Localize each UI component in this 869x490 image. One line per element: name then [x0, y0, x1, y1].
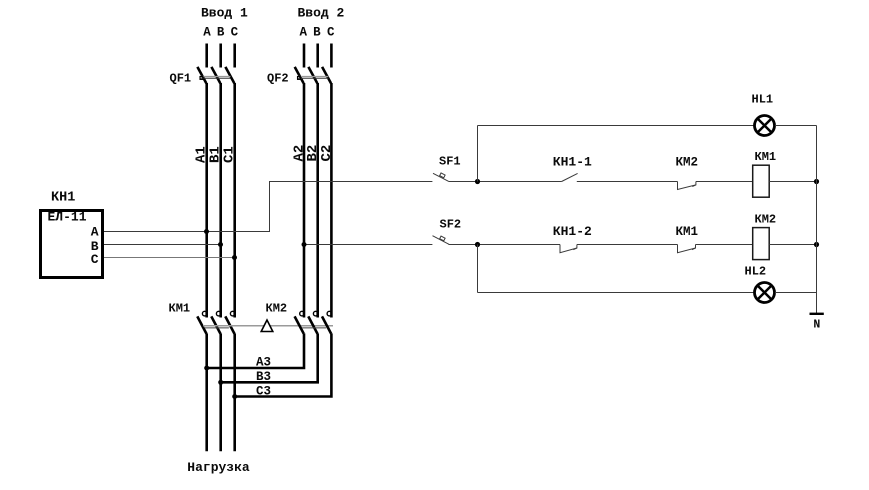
- wire phase C1: [233, 83, 236, 318]
- wire row1 mid: [577, 181, 678, 183]
- wire riser to HL1 row: [477, 126, 479, 182]
- wire KH1 pin A to bus A1 and riser: [104, 182, 270, 232]
- junction dot B3: [218, 380, 223, 385]
- svg-text:С2: С2: [319, 145, 335, 162]
- coil KM2: [753, 213, 776, 260]
- wire phase A2: [303, 83, 306, 318]
- junction dot A3: [204, 366, 209, 371]
- neutral bus: [816, 126, 818, 314]
- wire input2 top stubs: [304, 44, 331, 68]
- phase labels A B C input 2: [299, 26, 335, 40]
- pushbutton SF1: [433, 155, 461, 182]
- voltage relay KH1 (EL-11): [41, 191, 103, 278]
- contact KM2 (NC): [676, 156, 699, 190]
- junction dot B1: [218, 242, 223, 247]
- svg-text:КМ2: КМ2: [266, 302, 288, 316]
- wire SF1 to junction: [449, 181, 562, 183]
- svg-text:В: В: [217, 26, 225, 40]
- svg-text:HL1: HL1: [752, 93, 774, 107]
- wire SF2 to junction: [449, 244, 561, 246]
- junction dot row1: [475, 179, 480, 184]
- pushbutton SF2: [433, 218, 462, 245]
- svg-text:Нагрузка: Нагрузка: [187, 460, 250, 475]
- wire KH1 pin C: [104, 257, 236, 259]
- wire coil KM1 to bus: [769, 181, 816, 183]
- wire KM2 output C3: [236, 333, 331, 396]
- junction dot C3: [232, 394, 237, 399]
- wire phase A1: [205, 83, 208, 318]
- svg-text:А: А: [203, 26, 211, 40]
- svg-text:КМ1: КМ1: [755, 150, 777, 164]
- circuit breaker QF1: [170, 67, 235, 86]
- svg-text:КМ1: КМ1: [676, 225, 699, 239]
- svg-text:ЕЛ-11: ЕЛ-11: [48, 210, 87, 225]
- contactor KM1 main contacts: [169, 302, 236, 334]
- wire HL2 row right: [775, 292, 817, 294]
- wire HL2 row left: [478, 292, 755, 294]
- wire SF2 feed: [304, 244, 432, 246]
- contact KM1 (NC): [676, 225, 699, 253]
- svg-text:КМ2: КМ2: [676, 156, 699, 170]
- svg-text:С3: С3: [256, 385, 271, 399]
- svg-text:В: В: [313, 26, 321, 40]
- svg-text:КН1-2: КН1-2: [553, 224, 592, 239]
- phase labels A B C input 1: [203, 26, 238, 40]
- svg-text:SF2: SF2: [440, 218, 462, 232]
- svg-text:КМ1: КМ1: [169, 302, 191, 316]
- wire input1 top stubs: [207, 44, 235, 68]
- wire phase C2: [330, 83, 333, 318]
- terminal N: [810, 314, 824, 332]
- junction dot bus row2: [814, 242, 819, 247]
- wire KM2 output B3: [222, 333, 318, 382]
- wire phase B2: [316, 83, 319, 318]
- svg-text:Ввод 2: Ввод 2: [298, 6, 345, 21]
- svg-text:В3: В3: [256, 370, 271, 384]
- wire row2 to coil: [696, 244, 753, 246]
- wire KH1 pin B: [104, 244, 222, 246]
- wire SF1 feed: [269, 181, 432, 183]
- contact KH1-1: [553, 155, 592, 182]
- svg-text:QF2: QF2: [267, 72, 289, 86]
- svg-text:Ввод 1: Ввод 1: [201, 6, 248, 21]
- wire row2 mid: [577, 244, 678, 246]
- svg-text:С: С: [231, 26, 239, 40]
- wire KM1 output C: [233, 333, 236, 451]
- contactor KM2 main contacts: [266, 302, 332, 334]
- wire KM1 output B: [219, 333, 222, 451]
- wire KM1 output A: [205, 333, 208, 451]
- junction dot bus row1: [814, 179, 819, 184]
- circuit breaker QF2: [267, 67, 331, 86]
- svg-text:КН1: КН1: [51, 191, 75, 206]
- lamp HL2: [745, 265, 775, 303]
- wire coil KM2 to bus: [769, 244, 816, 246]
- lamp HL1: [752, 93, 775, 136]
- svg-text:КМ2: КМ2: [755, 213, 777, 227]
- svg-text:С: С: [91, 252, 99, 267]
- wire phase B1: [219, 83, 222, 318]
- svg-text:А: А: [299, 26, 307, 40]
- wire HL1 row right: [775, 125, 817, 127]
- svg-text:SF1: SF1: [439, 155, 461, 169]
- junction dot row2: [475, 242, 480, 247]
- wire row1 to coil: [696, 181, 753, 183]
- svg-text:С: С: [327, 26, 335, 40]
- mechanical interlock link: [203, 320, 333, 332]
- svg-text:КН1-1: КН1-1: [553, 155, 592, 170]
- wire HL1 row left: [478, 125, 755, 127]
- junction dot C1: [232, 255, 237, 260]
- wire riser to HL2 row: [477, 245, 479, 293]
- junction dot A2: [302, 242, 307, 247]
- wire KM2 output A3: [208, 333, 304, 368]
- svg-text:N: N: [813, 319, 820, 332]
- contact KH1-2 (NC): [553, 224, 592, 253]
- coil KM1: [753, 150, 776, 197]
- svg-text:А3: А3: [256, 356, 271, 370]
- junction dot A1: [204, 229, 209, 234]
- svg-text:А: А: [91, 225, 99, 240]
- svg-text:С1: С1: [222, 146, 238, 163]
- svg-text:HL2: HL2: [745, 265, 767, 279]
- svg-text:QF1: QF1: [170, 72, 192, 86]
